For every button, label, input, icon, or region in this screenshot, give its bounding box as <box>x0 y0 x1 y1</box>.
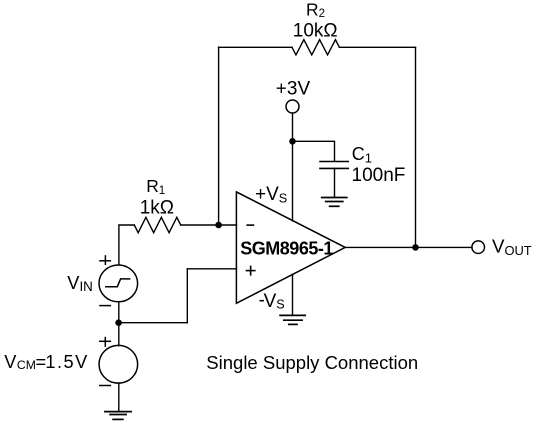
op-amp noninverting plus marker <box>246 266 256 276</box>
wire -VS pin vertical <box>292 275 294 316</box>
resistor R1 <box>134 217 180 232</box>
svg-text:+3V: +3V <box>276 79 311 100</box>
node dot inverting input <box>215 222 222 229</box>
op-amp inverting minus marker <box>246 224 254 226</box>
terminal +3V <box>286 100 299 113</box>
wire feedback right vertical <box>415 47 417 247</box>
wire node to noninverting riser <box>119 322 188 324</box>
wire +3V stub <box>292 113 294 141</box>
wire R1 right to inverting input <box>181 224 237 226</box>
source VIN <box>99 265 138 302</box>
svg-text:SGM8965-1: SGM8965-1 <box>240 238 333 258</box>
node dot +3V rail <box>289 138 296 145</box>
wire VIN bottom to node <box>118 302 120 323</box>
VIN waveform <box>106 279 130 287</box>
node dot output <box>412 244 419 251</box>
ground below C1 <box>322 198 347 207</box>
wire feedback top-left horizontal <box>219 46 292 48</box>
source VCM plus marker <box>99 337 111 347</box>
wire rail to C1 <box>293 141 335 161</box>
ground below -VS <box>280 315 305 324</box>
source VIN minus marker <box>99 305 111 307</box>
wire C1 bottom stub <box>334 168 336 197</box>
wire R1 left to VIN corner <box>119 225 134 265</box>
wire output horizontal <box>345 246 472 248</box>
wire feedback top-right horizontal <box>339 46 415 48</box>
source VCM <box>99 345 138 383</box>
op-amp U1 SGM8965-1 <box>236 192 345 303</box>
svg-text:100nF: 100nF <box>352 165 406 186</box>
wire noninverting riser vertical <box>186 269 188 323</box>
label -VS <box>260 300 264 302</box>
source VCM minus marker <box>99 385 111 387</box>
ground below VCM <box>105 412 131 420</box>
svg-text:1kΩ: 1kΩ <box>140 197 174 218</box>
svg-text:10kΩ: 10kΩ <box>293 21 338 42</box>
wire node to VCM top <box>118 323 120 346</box>
wire feedback left vertical <box>218 47 220 225</box>
capacitor C1 <box>320 162 348 169</box>
resistor R2 <box>292 40 339 55</box>
wire VCM bottom to ground <box>118 383 120 411</box>
svg-text:Single Supply Connection: Single Supply Connection <box>206 352 418 373</box>
node dot VIN/VCM <box>115 319 122 326</box>
terminal VOUT <box>472 241 485 254</box>
wire +VS pin vertical <box>292 141 294 221</box>
source VIN plus marker <box>99 255 111 265</box>
wire noninverting input horizontal <box>187 268 236 270</box>
